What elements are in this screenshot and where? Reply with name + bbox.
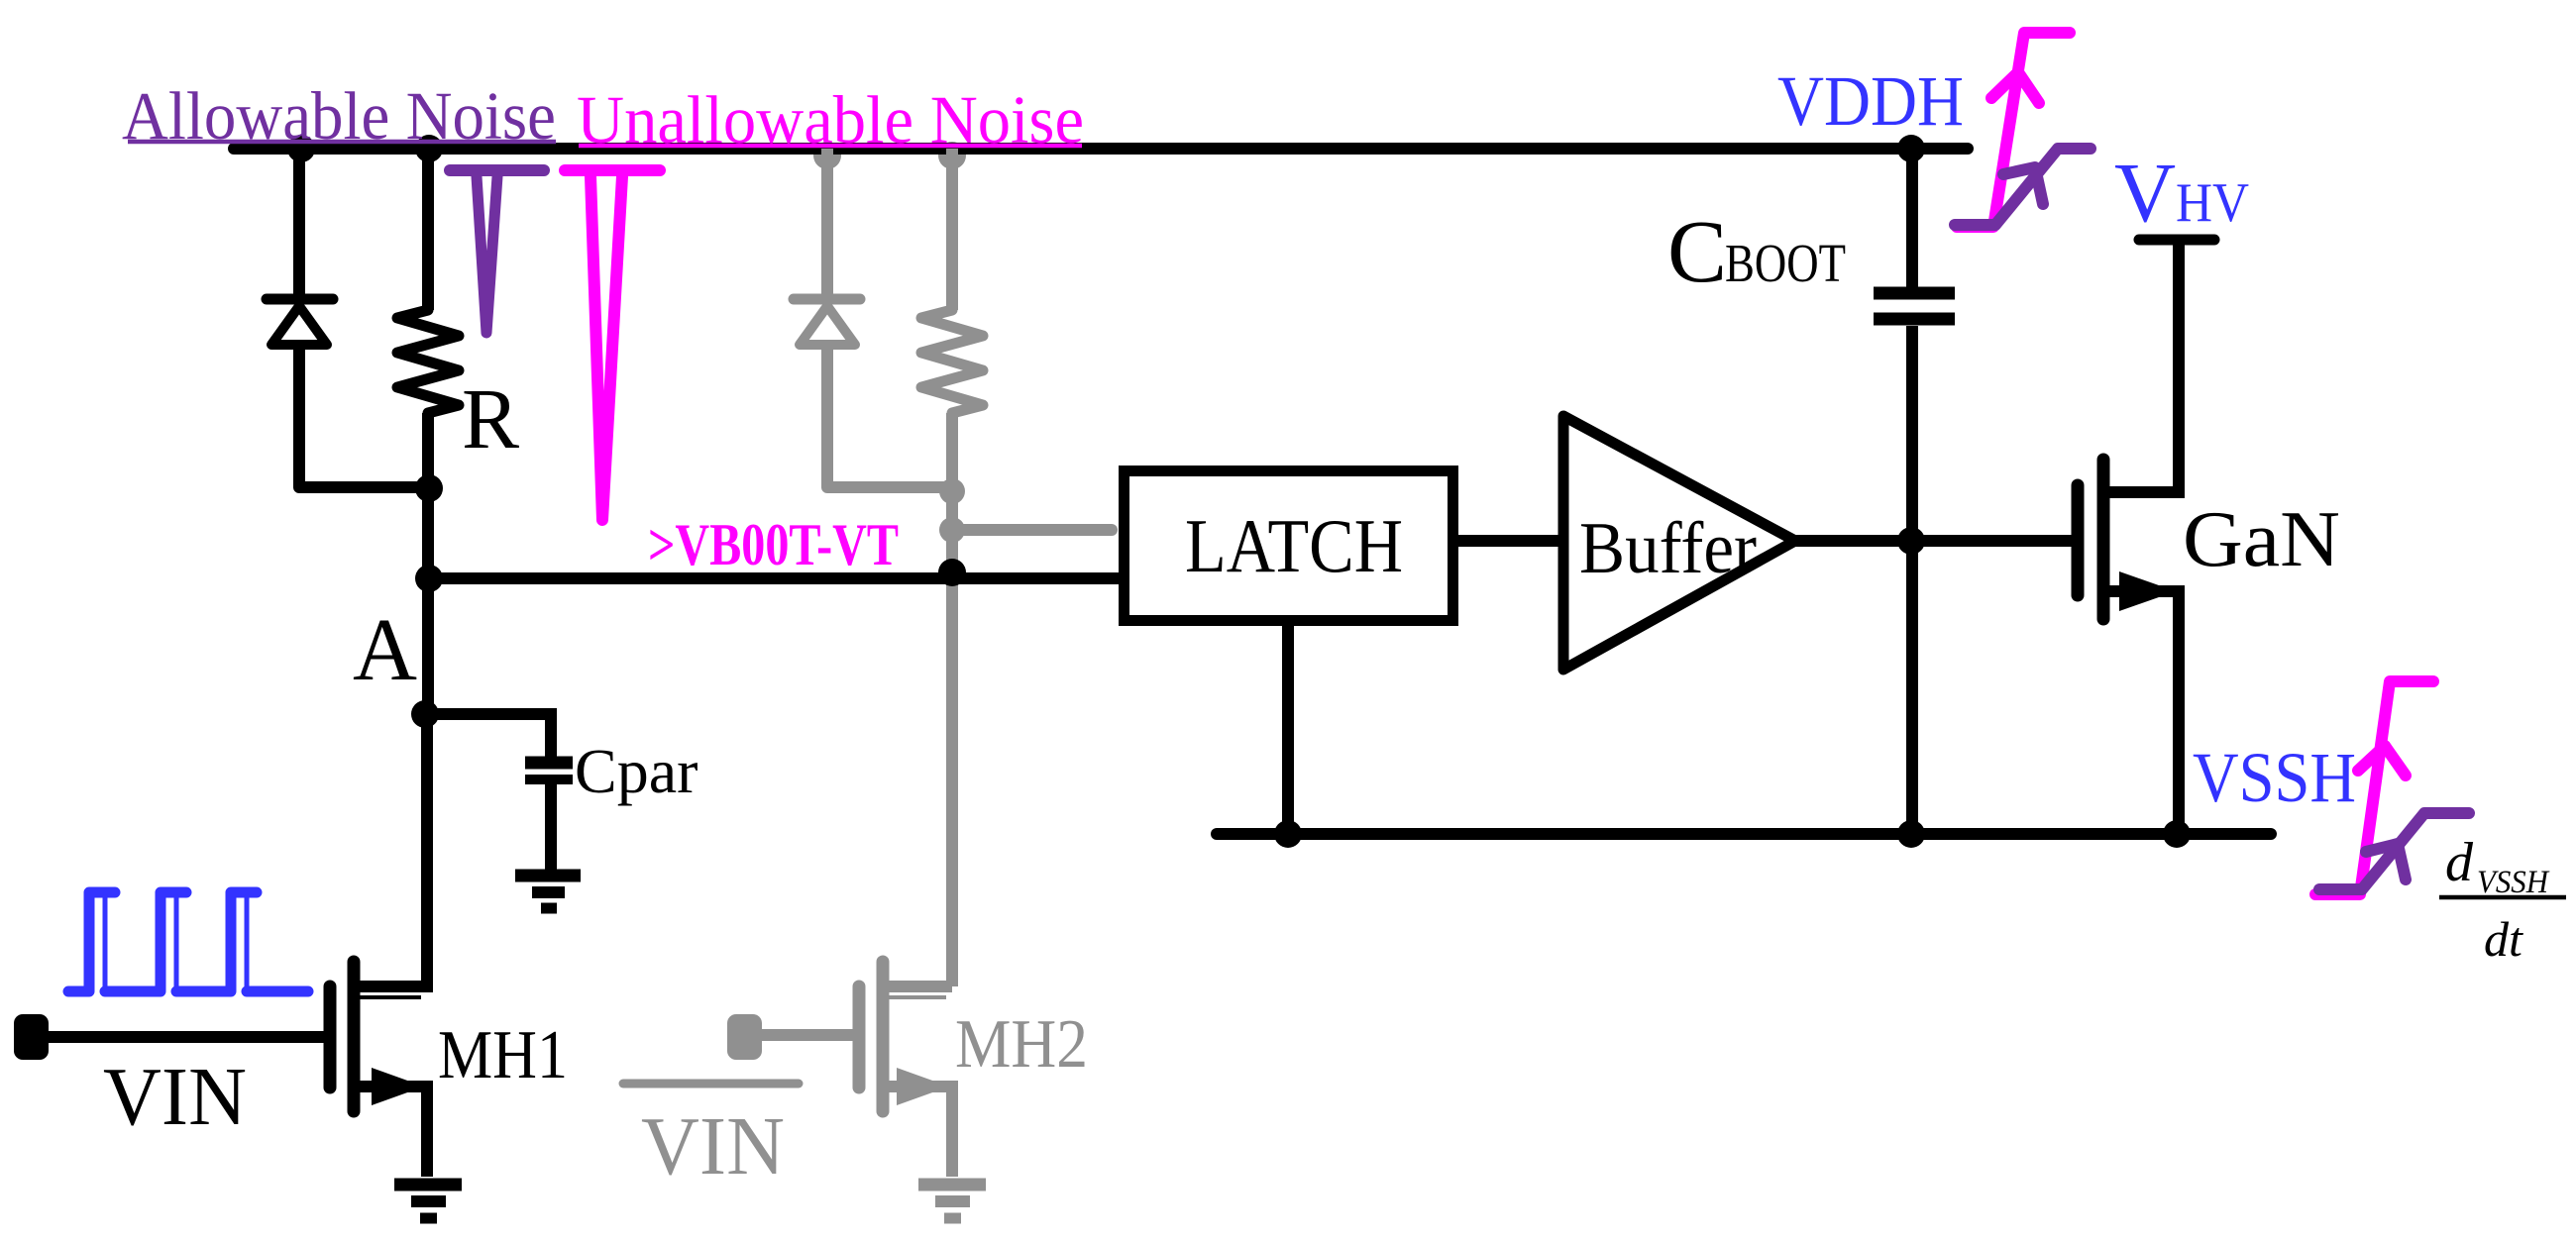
wire grey diode elbow bbox=[827, 481, 952, 493]
terminal VIN-bar (grey) bbox=[727, 1014, 762, 1060]
icon VDDH rising edge (magenta) bbox=[1957, 33, 2070, 227]
node A junction dot bbox=[411, 700, 439, 728]
node (grey) diode top junction on VDDH rail bbox=[813, 142, 841, 169]
diode D1 (black, left clamp) bbox=[267, 149, 333, 487]
icon allowable noise spike (purple) bbox=[450, 170, 544, 333]
svg-text:R: R bbox=[462, 370, 519, 466]
label VIN-bar (grey, overline) bbox=[623, 1084, 799, 1192]
svg-text:dt: dt bbox=[2484, 911, 2523, 967]
node LATCH bottom junction bbox=[1274, 820, 1302, 848]
ground (Cpar) bbox=[515, 876, 581, 908]
svg-text:Buffer: Buffer bbox=[1579, 508, 1757, 589]
grey vertical net B (resistor bottom to MH2 drain) bbox=[946, 487, 958, 986]
wire node A to LATCH input (black) bbox=[429, 572, 1119, 584]
svg-text:V: V bbox=[2114, 145, 2176, 240]
svg-text:BOOT: BOOT bbox=[1725, 233, 1846, 293]
icon VIN square wave (blue) bbox=[68, 892, 308, 991]
label CBOOT bbox=[1667, 203, 1846, 301]
label Allowable Noise (underlined) bbox=[122, 78, 556, 154]
label Unallowable Noise (underlined) bbox=[577, 82, 1084, 157]
node diode/resistor bottom junction bbox=[415, 474, 443, 502]
svg-text:LATCH: LATCH bbox=[1185, 503, 1403, 588]
icon VSSH rising edge (magenta) bbox=[2315, 681, 2433, 894]
transistor GaN (black power NMOS) bbox=[2078, 240, 2179, 834]
svg-text:HV: HV bbox=[2176, 172, 2249, 234]
resistor R (black) bbox=[397, 149, 459, 491]
node CBOOT bottom junction bbox=[1897, 820, 1925, 848]
capacitor Cpar bbox=[525, 763, 573, 876]
icon dVSSH/dt rising edge (purple) bbox=[2319, 813, 2469, 889]
transistor MH1 (black NMOS) bbox=[330, 962, 427, 1177]
icon unallowable noise spike (magenta) bbox=[565, 170, 660, 520]
ground (MH2 source, grey) bbox=[918, 1185, 986, 1218]
box LATCH bbox=[1125, 471, 1453, 621]
svg-text:C: C bbox=[1667, 203, 1727, 301]
node black resistor top junction bbox=[415, 135, 443, 162]
wire LATCH output to buffer bbox=[1453, 535, 1568, 547]
svg-text:VDDH: VDDH bbox=[1777, 61, 1964, 141]
node grey diode/resistor junction bbox=[939, 478, 965, 504]
label VHV (blue) bbox=[2114, 145, 2249, 240]
GaN source arrow bbox=[2119, 571, 2176, 611]
svg-text:A: A bbox=[353, 601, 417, 699]
op-amp Buffer triangle bbox=[1563, 416, 1795, 670]
node buffer output junction bbox=[1897, 527, 1925, 555]
node (grey) resistor top junction on VDDH rail bbox=[938, 142, 966, 169]
node CBOOT top junction bbox=[1897, 135, 1925, 162]
wire VIN to MH1 gate bbox=[45, 1031, 324, 1043]
ground (MH1 source) bbox=[394, 1185, 462, 1218]
transistor MH2 (grey NMOS) bbox=[859, 962, 952, 1177]
wire node to LATCH-input branch bbox=[422, 488, 434, 714]
node crossing dot at grey vertical bbox=[938, 559, 966, 586]
wire LATCH bottom pin to VSSH rail bbox=[1282, 621, 1294, 834]
svg-text:MH1: MH1 bbox=[438, 1017, 568, 1093]
node GaN source junction bbox=[2163, 820, 2191, 848]
wire grey VIN to MH2 gate bbox=[758, 1029, 853, 1041]
node on A-wire below resistor bbox=[415, 565, 443, 592]
svg-text:VIN: VIN bbox=[641, 1100, 785, 1192]
svg-text:MH2: MH2 bbox=[955, 1006, 1088, 1083]
terminal VHV bar bbox=[2139, 235, 2214, 246]
wire node A to Cpar bbox=[425, 714, 551, 758]
node black diode top junction bbox=[287, 135, 315, 162]
diode D2 (grey clamp) bbox=[794, 149, 860, 487]
wire VDDH top rail bbox=[234, 143, 1968, 155]
capacitor CBOOT bbox=[1874, 149, 1955, 834]
svg-text:VIN: VIN bbox=[103, 1051, 247, 1143]
wire node A down to MH1 drain bbox=[421, 714, 433, 992]
MH1 source arrow bbox=[372, 1068, 424, 1105]
wire buffer output to GaN gate bbox=[1789, 535, 2072, 547]
terminal VIN (black) bbox=[14, 1014, 49, 1060]
resistor R2 (grey) bbox=[921, 149, 983, 491]
svg-text:VSSH: VSSH bbox=[2477, 865, 2550, 900]
icon VDDH rising edge (purple) bbox=[1955, 149, 2091, 225]
label dVSSH/dt fraction bbox=[2439, 832, 2566, 967]
svg-text:>VB00T-VT: >VB00T-VT bbox=[648, 512, 899, 577]
wire grey node B to LATCH input bbox=[952, 524, 1112, 536]
wire VSSH bottom rail bbox=[1217, 828, 2271, 840]
node grey LATCH-wire junction bbox=[939, 517, 965, 543]
svg-text:d: d bbox=[2445, 832, 2474, 893]
svg-text:VSSH: VSSH bbox=[2193, 738, 2356, 817]
svg-text:Cpar: Cpar bbox=[575, 736, 698, 806]
MH2 source arrow bbox=[897, 1068, 949, 1105]
wire diode bottom elbow to node bbox=[299, 481, 429, 493]
svg-text:GaN: GaN bbox=[2183, 496, 2340, 583]
